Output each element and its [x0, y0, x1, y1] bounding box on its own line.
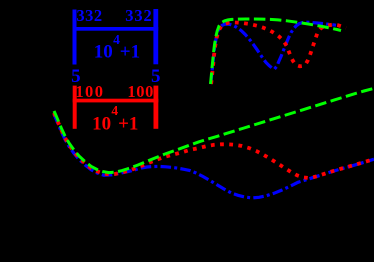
inset ladder network (red): left rail	[73, 86, 77, 129]
inset ladder network (blue): crossbar wire	[73, 27, 159, 31]
svg-text:10: 10	[94, 42, 113, 63]
main curve: blue dash-dot	[54, 114, 374, 197]
inset ladder network (blue): left rail	[73, 10, 77, 65]
inset ladder network (blue): right rail	[153, 9, 158, 64]
main curve: green dashed	[54, 88, 374, 172]
svg-text:+1: +1	[120, 42, 140, 63]
svg-text:100: 100	[75, 82, 104, 101]
svg-text:+1: +1	[118, 114, 138, 135]
upper curve: red dotted (dip right)	[211, 22, 346, 84]
upper curve: blue dash-dot (dip left)	[211, 22, 336, 84]
svg-text:100: 100	[127, 82, 154, 101]
main curve: red dotted	[54, 113, 374, 178]
upper curve: green dashed (plateau)	[211, 19, 342, 84]
inset ladder network (red): crossbar wire	[73, 99, 159, 103]
svg-text:332: 332	[76, 6, 102, 25]
svg-text:332: 332	[125, 6, 152, 25]
inset ladder network (red): right rail	[154, 86, 159, 129]
svg-text:10: 10	[92, 114, 111, 135]
